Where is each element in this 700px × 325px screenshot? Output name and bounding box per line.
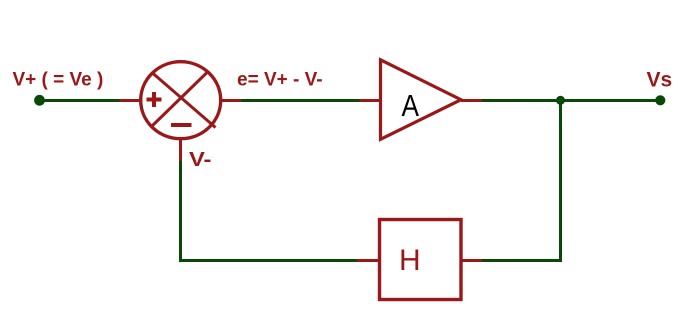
pin stub H block right input [461,259,482,262]
wire feedback right vertical and bottom to H input [482,101,561,261]
pin stub summing junction left (+) input [120,99,141,102]
pin stub amplifier input [360,99,382,102]
svg-text:V+ ( = Ve ): V+ ( = Ve ) [13,70,104,91]
pin stub summing junction output [221,99,242,102]
node Vs output terminal dot [655,95,665,105]
plus sign of summing junction [147,92,162,107]
summing junction U1 circle [141,62,221,139]
wire feedback bottom left and up to summing junction [181,161,358,261]
wire summing junction to amplifier [241,99,360,102]
minus sign of summing junction [171,123,192,127]
svg-text:Vs: Vs [647,69,673,92]
svg-text:V-: V- [189,149,212,171]
op-amp amplifier A triangle [381,60,462,140]
svg-text:A: A [402,88,420,123]
svg-text:e= V+ - V-: e= V+ - V- [237,70,323,91]
summing junction X diagonal 2 [152,72,208,127]
block H rectangle [380,220,462,300]
pin stub summing junction bottom (-) input [179,140,182,161]
wire amplifier output to Vs [482,99,661,102]
node V+ input terminal dot [34,95,45,106]
wire input to summing junction [40,99,120,102]
pin stub H block left output [357,259,380,262]
junction dot feedback tap [556,96,565,105]
pin stub amplifier output [461,99,482,102]
svg-text:H: H [399,244,421,277]
summing junction X diagonal 1 [153,73,216,128]
